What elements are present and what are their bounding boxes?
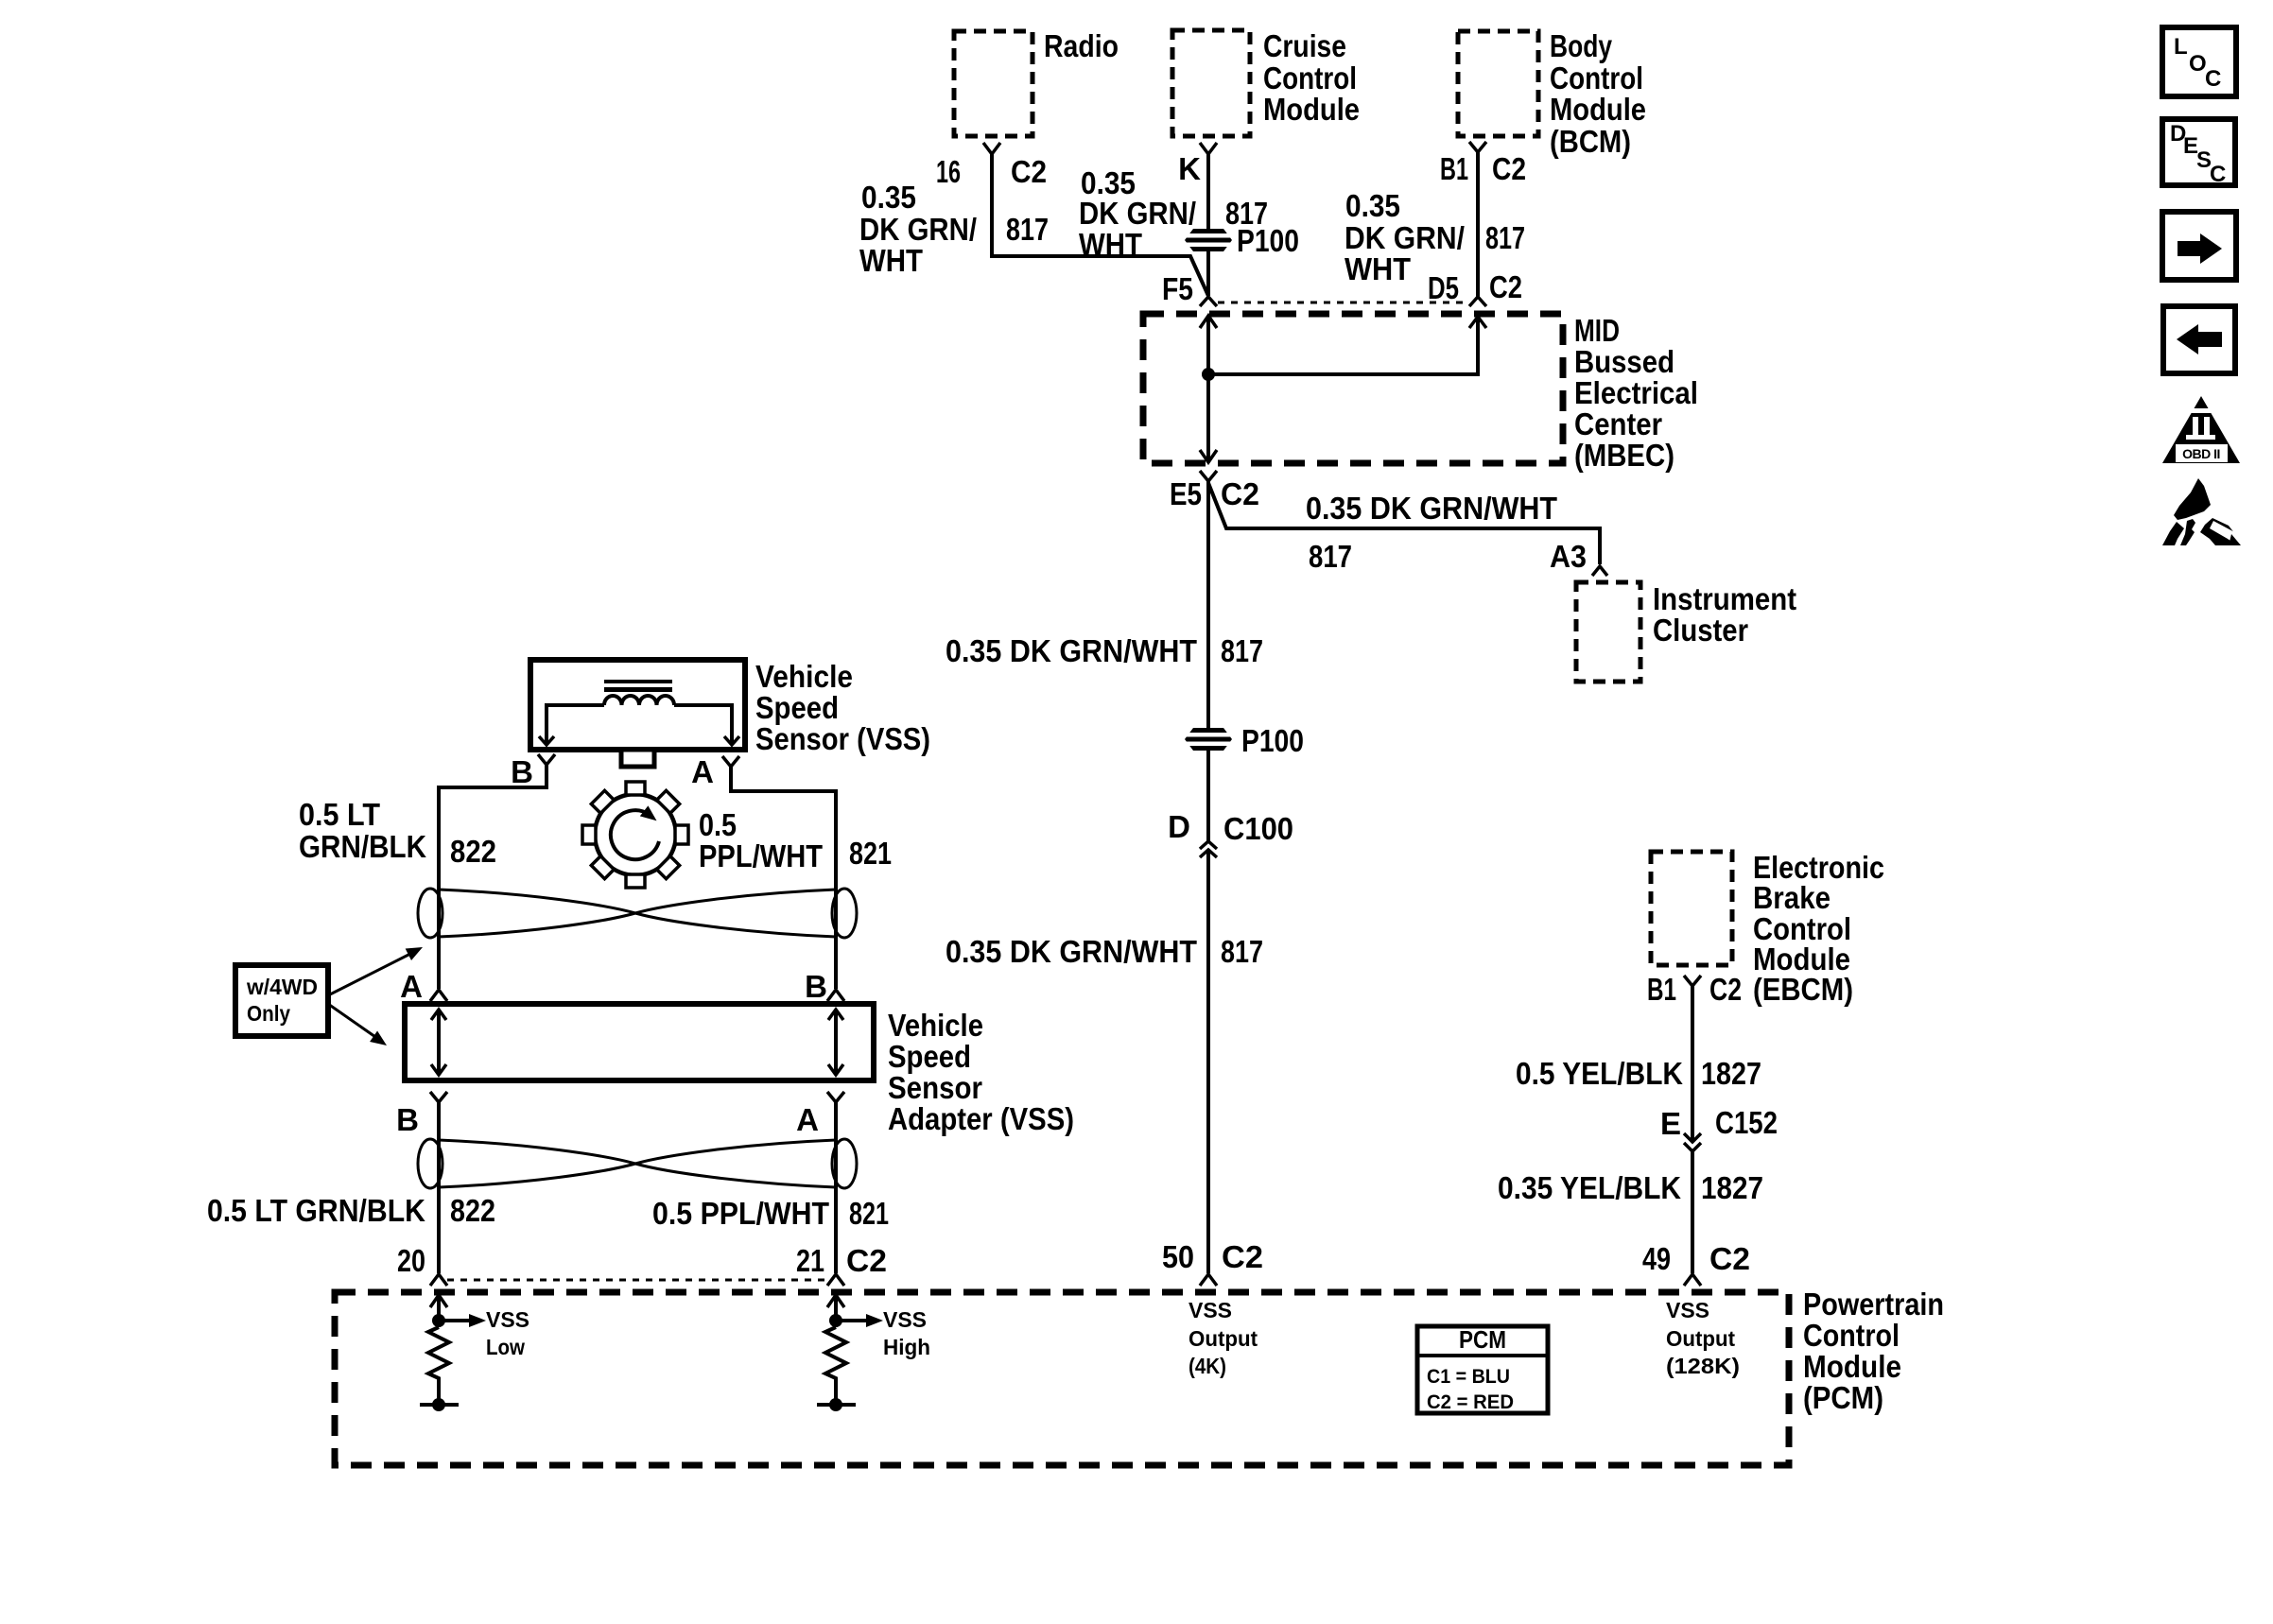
- svg-text:Module: Module: [1803, 1349, 1901, 1384]
- svg-text:Module: Module: [1263, 92, 1360, 127]
- svg-text:Only: Only: [247, 1001, 290, 1026]
- svg-text:C2: C2: [1709, 972, 1742, 1007]
- svg-text:PPL/WHT: PPL/WHT: [699, 838, 823, 873]
- svg-text:WHT: WHT: [1345, 251, 1411, 286]
- svg-text:C: C: [2205, 66, 2221, 92]
- svg-text:0.35 DK GRN/WHT: 0.35 DK GRN/WHT: [1306, 491, 1557, 526]
- svg-text:Center: Center: [1574, 406, 1662, 441]
- svg-text:0.5 LT GRN/BLK: 0.5 LT GRN/BLK: [207, 1193, 425, 1228]
- svg-text:Body: Body: [1550, 28, 1613, 63]
- svg-text:(128K): (128K): [1666, 1354, 1740, 1378]
- svg-text:A: A: [796, 1102, 819, 1137]
- svg-text:(PCM): (PCM): [1803, 1380, 1883, 1415]
- svg-text:0.5 PPL/WHT: 0.5 PPL/WHT: [652, 1196, 829, 1231]
- svg-text:C2: C2: [846, 1243, 887, 1278]
- svg-text:Cruise: Cruise: [1263, 28, 1346, 63]
- svg-text:E5: E5: [1170, 476, 1202, 511]
- svg-text:1827: 1827: [1701, 1170, 1763, 1205]
- svg-text:49: 49: [1642, 1241, 1671, 1276]
- svg-text:817: 817: [1485, 220, 1525, 255]
- svg-text:Control: Control: [1803, 1318, 1900, 1353]
- svg-text:Adapter (VSS): Adapter (VSS): [888, 1101, 1074, 1136]
- svg-text:VSS: VSS: [1189, 1298, 1232, 1322]
- svg-text:Sensor (VSS): Sensor (VSS): [755, 721, 930, 756]
- svg-text:C152: C152: [1715, 1105, 1778, 1140]
- svg-text:Vehicle: Vehicle: [755, 659, 853, 694]
- svg-text:817: 817: [1006, 212, 1049, 247]
- svg-text:C100: C100: [1223, 811, 1293, 846]
- svg-text:O: O: [2189, 51, 2207, 77]
- svg-text:Output: Output: [1666, 1326, 1735, 1351]
- svg-text:0.35 DK GRN/WHT: 0.35 DK GRN/WHT: [946, 633, 1197, 668]
- svg-text:DK GRN/: DK GRN/: [1345, 220, 1465, 255]
- svg-text:C2: C2: [1489, 269, 1522, 304]
- svg-text:821: 821: [849, 1196, 889, 1231]
- svg-text:P100: P100: [1237, 223, 1299, 258]
- svg-text:Control: Control: [1263, 60, 1357, 95]
- svg-text:B1: B1: [1647, 972, 1676, 1007]
- svg-text:Powertrain: Powertrain: [1803, 1287, 1944, 1322]
- svg-text:B: B: [805, 969, 827, 1004]
- svg-text:50: 50: [1162, 1239, 1194, 1274]
- svg-text:C2: C2: [1709, 1241, 1750, 1276]
- svg-text:(4K): (4K): [1189, 1354, 1226, 1378]
- svg-text:817: 817: [1221, 934, 1263, 969]
- svg-text:Module: Module: [1550, 92, 1646, 127]
- svg-text:C2: C2: [1222, 1239, 1263, 1274]
- svg-text:K: K: [1178, 151, 1201, 186]
- svg-text:D: D: [1168, 809, 1190, 844]
- svg-text:822: 822: [450, 1193, 495, 1228]
- svg-text:PCM: PCM: [1459, 1325, 1506, 1354]
- svg-text:C2 = RED: C2 = RED: [1427, 1391, 1514, 1413]
- svg-text:(EBCM): (EBCM): [1753, 972, 1853, 1007]
- svg-text:VSS: VSS: [1666, 1298, 1709, 1322]
- svg-text:0.5: 0.5: [699, 807, 737, 842]
- svg-text:GRN/BLK: GRN/BLK: [299, 829, 426, 864]
- svg-text:16: 16: [936, 154, 961, 189]
- svg-text:B: B: [511, 754, 533, 789]
- svg-text:A: A: [400, 969, 423, 1004]
- svg-text:L: L: [2174, 34, 2188, 60]
- svg-text:Control: Control: [1550, 60, 1643, 95]
- svg-text:(BCM): (BCM): [1550, 124, 1631, 159]
- svg-text:High: High: [883, 1335, 930, 1359]
- svg-text:Electrical: Electrical: [1574, 375, 1698, 410]
- svg-text:817: 817: [1309, 539, 1352, 574]
- svg-text:C2: C2: [1492, 151, 1526, 186]
- svg-text:Low: Low: [486, 1335, 525, 1359]
- svg-text:WHT: WHT: [859, 243, 923, 278]
- svg-text:Cluster: Cluster: [1653, 613, 1748, 648]
- svg-text:21: 21: [796, 1243, 824, 1278]
- svg-text:C: C: [2210, 162, 2226, 187]
- svg-text:Sensor: Sensor: [888, 1070, 982, 1105]
- svg-text:VSS: VSS: [486, 1307, 529, 1332]
- svg-text:OBD II: OBD II: [2182, 446, 2220, 461]
- svg-text:0.5 YEL/BLK: 0.5 YEL/BLK: [1516, 1056, 1683, 1091]
- svg-text:20: 20: [397, 1243, 425, 1278]
- svg-text:0.35: 0.35: [861, 180, 916, 215]
- svg-text:WHT: WHT: [1079, 227, 1142, 262]
- svg-text:Vehicle: Vehicle: [888, 1008, 983, 1043]
- svg-text:DK GRN/: DK GRN/: [859, 212, 977, 247]
- svg-text:C1 = BLU: C1 = BLU: [1427, 1366, 1510, 1388]
- svg-text:0.5 LT: 0.5 LT: [299, 797, 380, 832]
- svg-text:A: A: [691, 754, 714, 789]
- svg-text:DK GRN/: DK GRN/: [1079, 196, 1196, 231]
- svg-text:VSS: VSS: [883, 1307, 927, 1332]
- svg-text:817: 817: [1221, 633, 1263, 668]
- svg-text:C2: C2: [1011, 154, 1047, 189]
- svg-text:MID: MID: [1574, 313, 1620, 348]
- svg-text:D5: D5: [1428, 270, 1459, 305]
- svg-text:C2: C2: [1221, 476, 1259, 511]
- svg-text:Bussed: Bussed: [1574, 344, 1674, 379]
- svg-text:Output: Output: [1189, 1326, 1258, 1351]
- svg-text:Speed: Speed: [888, 1039, 971, 1074]
- svg-text:822: 822: [450, 834, 496, 869]
- svg-text:B: B: [396, 1102, 419, 1137]
- svg-text:Brake: Brake: [1753, 880, 1831, 915]
- svg-text:0.35 YEL/BLK: 0.35 YEL/BLK: [1498, 1170, 1681, 1205]
- svg-text:(MBEC): (MBEC): [1574, 438, 1674, 473]
- svg-text:0.35 DK GRN/WHT: 0.35 DK GRN/WHT: [946, 934, 1197, 969]
- svg-text:Instrument: Instrument: [1653, 581, 1796, 616]
- svg-text:0.35: 0.35: [1345, 188, 1400, 223]
- svg-text:B1: B1: [1440, 151, 1468, 186]
- svg-text:P100: P100: [1241, 723, 1304, 758]
- svg-text:821: 821: [849, 836, 892, 871]
- svg-text:1827: 1827: [1701, 1056, 1761, 1091]
- svg-text:w/4WD: w/4WD: [246, 975, 318, 999]
- svg-text:Speed: Speed: [755, 690, 839, 725]
- svg-text:A3: A3: [1550, 539, 1587, 574]
- svg-text:F5: F5: [1162, 271, 1193, 306]
- svg-text:Radio: Radio: [1044, 28, 1119, 63]
- svg-text:E: E: [1660, 1106, 1681, 1141]
